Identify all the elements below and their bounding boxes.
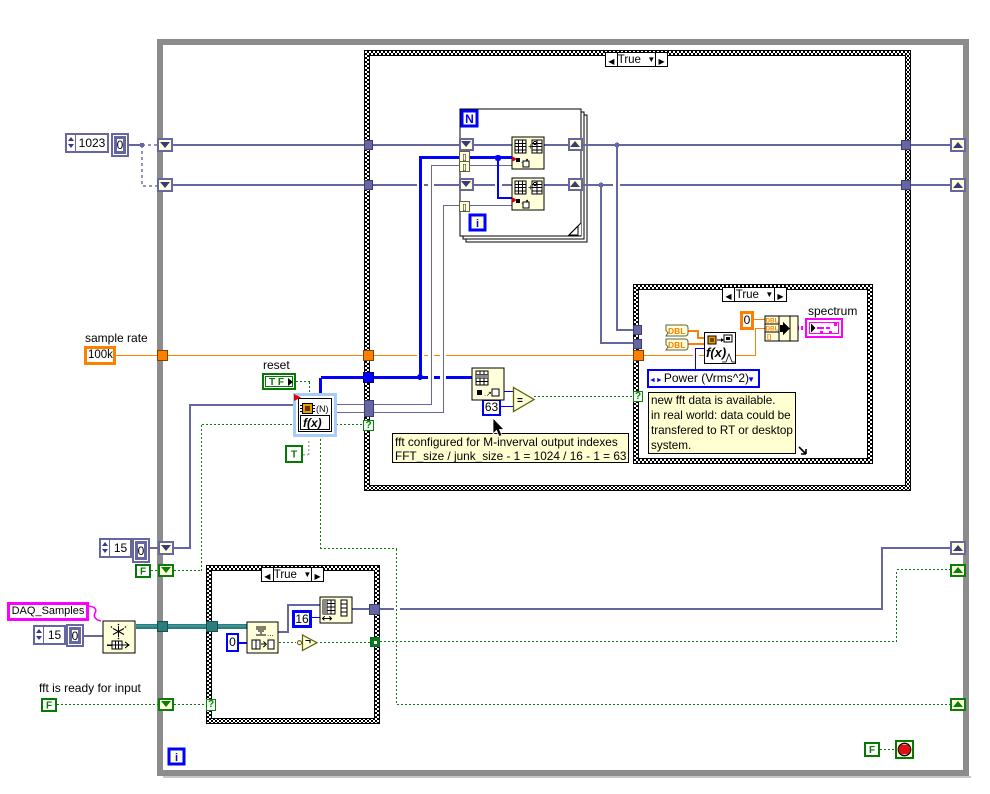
auto-index tunnel [] 2 bbox=[460, 162, 470, 172]
tunnel: slate tall on case border bbox=[364, 400, 374, 417]
selector terminal ? main case bbox=[363, 420, 374, 431]
tunnel: bool bottom case out bbox=[370, 637, 380, 647]
boolean control TF (reset) bbox=[262, 373, 296, 390]
for loop N terminal bbox=[462, 111, 477, 126]
svg-text:.↗: .↗ bbox=[484, 391, 492, 398]
svg-text:f(x): f(x) bbox=[303, 416, 322, 430]
constant 63 bbox=[482, 399, 501, 416]
shift register left (bool2) bbox=[158, 698, 174, 711]
svg-text:[]: [] bbox=[767, 334, 771, 341]
wire: blue vertical to for loop bbox=[419, 156, 422, 379]
tunnel: orange on case border bbox=[363, 350, 374, 361]
case selector: spectrum True bbox=[722, 287, 787, 302]
wire: slate thin verticals into for loop bbox=[431, 165, 432, 405]
wire: blue fft-size run (y377) bbox=[321, 376, 472, 379]
node: not gate bbox=[298, 635, 318, 651]
free label: new fft data comment bbox=[648, 392, 796, 454]
node: DAQ read bbox=[103, 621, 135, 653]
tunnel: slate B case right bbox=[901, 180, 911, 190]
case structure: main (top) bbox=[364, 50, 911, 491]
wire: bottom case out to right shift reg (slate) bbox=[352, 608, 370, 610]
wire: shift reg 15/0 to fft VI (slate) bbox=[149, 547, 158, 549]
shift register left (array A) bbox=[157, 138, 173, 152]
selector terminal ? bottom case bbox=[206, 699, 216, 711]
case selector: bottom True bbox=[261, 567, 324, 582]
tunnel: teal bottom case bbox=[206, 621, 218, 632]
tunnel: slate A case right bbox=[901, 140, 911, 150]
node: bundle to waveform bbox=[765, 316, 798, 341]
wire: teal DAQ task bbox=[136, 624, 247, 629]
svg-text:DBL: DBL bbox=[668, 340, 685, 350]
wire: orange sample rate run bbox=[115, 355, 157, 356]
tunnel: slate DBL B inner case bbox=[633, 339, 642, 349]
constant 0 (DAQ) bbox=[66, 624, 84, 647]
svg-text:DBL: DBL bbox=[668, 326, 685, 336]
constant 0 (blue) bbox=[226, 633, 239, 652]
svg-text:F: F bbox=[869, 745, 875, 756]
for loop shift reg right B bbox=[568, 178, 583, 191]
wire: fft VI out upper to for loop (slate thin) bbox=[335, 404, 432, 405]
case selector: main True bbox=[605, 52, 668, 67]
tunnel: orange inner case bbox=[633, 350, 644, 361]
for loop shift reg left A bbox=[459, 138, 474, 151]
wire: fft VI out lower to for loop (slate thin) bbox=[335, 412, 444, 413]
tunnel: slate B case left bbox=[364, 180, 373, 190]
node: sum history (bottom case) bbox=[247, 622, 278, 653]
wire: orange DBL B to fx bbox=[688, 343, 706, 345]
for loop i terminal bbox=[470, 215, 485, 230]
constant 0 (mid) bbox=[132, 538, 150, 563]
node: equals comparison bbox=[514, 388, 535, 412]
wire: blue stub fft VI top bbox=[319, 378, 322, 395]
svg-text:T: T bbox=[291, 450, 297, 461]
for loop shift reg right A bbox=[568, 138, 583, 151]
tunnel: slate A case left bbox=[364, 140, 373, 150]
wire: waveform to spectrum bbox=[797, 326, 806, 330]
tunnel: slate DBL A inner case bbox=[633, 325, 642, 335]
numeric control 15 (mid) bbox=[99, 538, 132, 558]
wire: blue 16 to node bbox=[311, 617, 321, 618]
while loop (outer) border bbox=[157, 39, 969, 776]
wire: slate 0 const to DAQ node bbox=[84, 635, 104, 637]
svg-text:[]: [] bbox=[463, 155, 467, 162]
constant 0 (top) bbox=[111, 133, 129, 157]
wire: blue index array to equals bbox=[504, 391, 514, 392]
svg-text:i: i bbox=[476, 218, 479, 230]
numeric control 100k (sample rate) bbox=[84, 346, 116, 365]
terminal DBL B bbox=[666, 339, 688, 350]
wire: blue inside for loop bbox=[470, 156, 512, 159]
for loop shift reg left B bbox=[459, 178, 474, 191]
auto-index tunnel [] 1 bbox=[460, 152, 470, 162]
svg-text:(N): (N) bbox=[316, 404, 329, 414]
indicator: spectrum bbox=[806, 319, 842, 337]
node: reshape array (bottom case) bbox=[320, 597, 352, 623]
shift register right (array B) bbox=[950, 178, 966, 192]
shift register left (array B) bbox=[157, 178, 173, 192]
wire: vertical slate to DBL B bbox=[600, 185, 602, 344]
node: replace array subset 1 bbox=[512, 137, 544, 169]
vi icon: fx spectrum node bbox=[705, 333, 736, 364]
case structure: spectrum (inner right) bbox=[633, 284, 873, 464]
wire: blue 0 to node bbox=[238, 642, 248, 644]
wire: slate sum node to array node bbox=[278, 631, 289, 633]
shift register right (array A) bbox=[950, 138, 966, 152]
label: sample rate bbox=[85, 331, 148, 345]
label: reset bbox=[263, 358, 290, 372]
case structure: bottom left bbox=[206, 565, 380, 724]
shift register right (count) bbox=[950, 541, 966, 555]
svg-text:DBL: DBL bbox=[766, 318, 779, 325]
wire: blue 63 to equals bbox=[500, 406, 514, 407]
shift register right (bool2) bbox=[950, 698, 966, 711]
shift register left (count) bbox=[158, 541, 174, 555]
tunnel: slate bottom case out bbox=[369, 604, 380, 615]
while loop i terminal bbox=[169, 749, 184, 764]
svg-text:F: F bbox=[46, 701, 52, 712]
svg-text:[]: [] bbox=[463, 165, 467, 172]
enum constant Power (Vrms^2) bbox=[647, 369, 760, 388]
wire: T const to fft (dashed gray) bbox=[303, 439, 309, 455]
terminal DBL A bbox=[666, 325, 688, 336]
wire: array row A (slate, y145) bbox=[172, 144, 950, 146]
while loop shadow edge bbox=[163, 776, 971, 778]
free label: fft configured tooltip bbox=[392, 433, 629, 463]
wire: 1023 constant branch (dashed) bbox=[128, 144, 142, 146]
wire: array row B (slate, y185) bbox=[172, 184, 950, 186]
label: spectrum bbox=[808, 304, 857, 318]
junction dots bbox=[615, 143, 620, 148]
wire: blue enum to fx bbox=[695, 349, 696, 370]
wire: orange 0 const to bundle bbox=[753, 319, 766, 320]
wire: orange DBL A to fx bbox=[688, 330, 699, 332]
mouse cursor bbox=[489, 417, 507, 441]
constant 0 (orange) bbox=[740, 311, 754, 330]
numeric control 1023 bbox=[65, 133, 109, 153]
constant 16 bbox=[292, 610, 312, 628]
selector terminal ? inner case bbox=[633, 391, 643, 402]
stop terminal bbox=[896, 741, 913, 758]
auto-index tunnel [] 3 bbox=[460, 202, 470, 212]
resize handle bbox=[796, 444, 812, 460]
svg-text:N: N bbox=[465, 112, 474, 126]
tunnel: teal on loop border bbox=[157, 621, 168, 632]
svg-text:F: F bbox=[140, 567, 146, 578]
numeric control 15 (DAQ) bbox=[33, 625, 66, 645]
svg-text:...: ... bbox=[267, 629, 274, 638]
boolean constant F (fft ready) bbox=[41, 698, 57, 712]
wire crossing gaps bbox=[394, 184, 699, 610]
tunnel: blue on case border bbox=[363, 372, 374, 383]
boolean constant F (stop) bbox=[864, 742, 880, 757]
svg-text:DBL: DBL bbox=[766, 326, 779, 333]
svg-text:[]: [] bbox=[463, 205, 467, 212]
wire: pink DAQ_Samples squiggle bbox=[89, 606, 101, 621]
shift register right (bool) bbox=[950, 564, 966, 577]
boolean constant T bbox=[285, 445, 303, 463]
wire: orange riser to bundle bbox=[755, 328, 756, 356]
for loop folded corner bbox=[569, 223, 581, 235]
boolean wires (dotted green) bbox=[57, 382, 950, 750]
shift register left (bool) bbox=[158, 564, 174, 577]
wire: vertical slate to DBL A bbox=[616, 145, 618, 330]
vi icon: fft config (selected) bbox=[293, 393, 337, 437]
boolean constant F (shift reg) bbox=[135, 564, 151, 578]
node: replace array subset 2 bbox=[512, 178, 544, 210]
svg-text:f(x): f(x) bbox=[706, 345, 726, 360]
node: index array bbox=[472, 368, 504, 400]
svg-text:i: i bbox=[175, 752, 178, 764]
string control DAQ_Samples bbox=[7, 602, 89, 621]
label: fft is ready for input bbox=[39, 681, 141, 695]
tunnel: orange on loop border bbox=[157, 350, 168, 361]
svg-text:=: = bbox=[517, 396, 523, 407]
